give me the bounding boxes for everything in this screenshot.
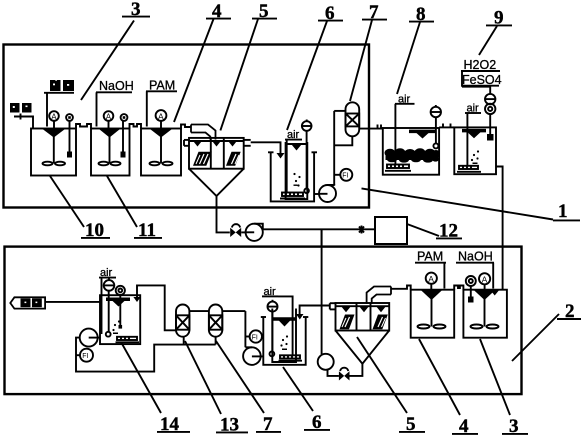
- media biofilm blobs tank 8: [385, 148, 441, 162]
- svg-text:A: A: [106, 113, 112, 122]
- callout 3b: [480, 339, 528, 437]
- label air tank 8: [395, 94, 415, 106]
- pipe sludge header to tank 12: [263, 229, 375, 246]
- tank 11 NaOH mixing tank: [91, 129, 130, 176]
- label PAM (bottom): [415, 250, 446, 289]
- pipe tank 14 outlet: [45, 301, 100, 303]
- pipe riser to columns bottom: [222, 311, 245, 347]
- callout 4b: [419, 339, 478, 437]
- column 7 filter (bottom): [209, 305, 222, 337]
- label air tank 6 bottom: [262, 286, 278, 298]
- pipe sludge clarifier top underflow: [217, 196, 230, 232]
- label H2O2: [461, 58, 500, 72]
- bubbles tank 6 top: [293, 173, 300, 187]
- pipe riser pump to column 7: [334, 111, 345, 185]
- pump P2 sludge: [241, 224, 263, 241]
- pipe air down tank 6: [286, 140, 288, 192]
- plate pack right bottom clarifier: [373, 315, 388, 330]
- pipe clarifier bottom outlet bracket: [330, 303, 336, 309]
- label air tank 14: [99, 267, 116, 279]
- pipe column13 outlet to tank 14: [133, 285, 176, 330]
- svg-text:6: 6: [325, 3, 335, 24]
- svg-text:5: 5: [406, 414, 416, 435]
- svg-text:PAM: PAM: [417, 250, 443, 264]
- pipe tank 8 to tank 9: [439, 124, 454, 128]
- svg-text:A: A: [158, 111, 164, 121]
- svg-text:7: 7: [369, 2, 379, 23]
- pipe clarifier inlet stub left: [184, 140, 189, 146]
- callout 1: [362, 188, 581, 222]
- label PAM (top): [146, 79, 177, 127]
- tank PAM mixing (top): [141, 129, 181, 176]
- funnel hopper clarifier bottom: [336, 331, 390, 364]
- tank 14 aeration: [100, 295, 140, 344]
- funnel hopper clarifier top: [189, 169, 244, 196]
- svg-text:4: 4: [459, 416, 469, 437]
- callout 9: [479, 8, 512, 56]
- tank 6 aeration (top) outer: [268, 152, 317, 201]
- unit 1 enclosure box: [4, 45, 370, 208]
- motor M3 on PAM tank: [156, 110, 167, 129]
- pipe dosing line to tank 9: [462, 71, 490, 94]
- probe dosing into tank 9: [487, 114, 494, 140]
- label FeSO4: [462, 73, 502, 87]
- svg-text:A: A: [482, 275, 488, 285]
- diffuser tank 6 top: [280, 193, 305, 199]
- valve V2 sludge bottom: [339, 368, 350, 381]
- launder feed trough clarifier 5 (bottom): [367, 287, 391, 305]
- svg-text:H2O2: H2O2: [464, 58, 497, 72]
- svg-text:A: A: [428, 274, 434, 284]
- node discharge arrow 出水: [10, 297, 45, 308]
- motor M4 tank 3 bottom: [479, 273, 490, 290]
- sensor DO tank 6 bottom: [268, 300, 278, 357]
- column 7 filter (top): [334, 102, 359, 145]
- callout 11: [107, 176, 162, 241]
- pump P1 after tank 6: [314, 185, 336, 202]
- clarifier 4/5 inclined plate settler (top): [189, 138, 244, 169]
- tank 12 sludge box: [375, 217, 407, 244]
- svg-text:5: 5: [259, 1, 269, 22]
- node feed label 废水 (vector glyphs): [10, 102, 32, 114]
- svg-text:3: 3: [509, 416, 519, 437]
- pump P4 tank 6 bottom: [243, 347, 263, 365]
- callout 12: [407, 221, 462, 242]
- svg-text:7: 7: [263, 414, 273, 435]
- callout 5b: [357, 337, 425, 435]
- callout 6b: [283, 367, 330, 433]
- svg-text:12: 12: [439, 221, 458, 242]
- pipe air down tank 9: [466, 113, 468, 166]
- node inlet marker tank 3 bottom: [491, 290, 500, 295]
- callout 3: [81, 0, 150, 100]
- plate pack right (hatched): [226, 152, 241, 166]
- wire feed inlet line: [14, 114, 33, 129]
- callout 7: [350, 2, 387, 101]
- sensor pH probe tank 11: [121, 114, 128, 157]
- tank 4 PAM mixing (bottom): [411, 290, 455, 338]
- pipe PAM tank to launder: [181, 125, 191, 129]
- tank 6 aeration (bottom) outer: [261, 317, 309, 365]
- diffuser tank 6 bottom: [279, 355, 303, 360]
- callout 8: [397, 4, 434, 94]
- pipe tank 9 outlet down to unit 2: [496, 167, 503, 290]
- tank 10 acid mixing tank: [31, 129, 76, 176]
- sensor pH probe tank 10: [66, 114, 73, 157]
- valve union fitting: [359, 226, 364, 234]
- sensor DO meter tank 6 top: [302, 120, 312, 194]
- svg-text:11: 11: [138, 220, 156, 241]
- pipe effluent to tank 6 bottom: [296, 306, 330, 320]
- bubbles tank 9: [471, 150, 479, 164]
- callout 10: [50, 176, 110, 241]
- svg-text:3: 3: [131, 0, 141, 20]
- pipe air tank 6 bottom: [278, 296, 293, 355]
- diffuser tank 14: [116, 337, 140, 343]
- meter FI tank 6 bottom: [245, 330, 262, 342]
- callout 7b: [216, 341, 281, 435]
- column 13 filter: [176, 305, 189, 337]
- tank 3 NaOH mixing (bottom): [463, 290, 507, 338]
- pipe air tank 14: [101, 278, 103, 334]
- bubbles tank 14: [112, 320, 120, 334]
- tank 6 inner column: [286, 142, 308, 199]
- plate pack left (hatched): [193, 152, 212, 166]
- label air tank 6 top: [285, 129, 302, 141]
- callout 5: [220, 1, 277, 130]
- tank 8 biological reactor: [383, 128, 439, 175]
- pipe column 7 outlet to tank 8: [359, 125, 383, 129]
- svg-text:2: 2: [565, 301, 575, 322]
- diffuser tank 8: [385, 165, 411, 171]
- launder feed trough clarifier 4: [191, 125, 216, 140]
- tank 9 fenton reactor: [454, 127, 496, 174]
- unit 2 enclosure box: [5, 247, 522, 395]
- label air tank 9: [465, 103, 481, 115]
- svg-text:1: 1: [558, 201, 568, 222]
- pipe columns drain header: [76, 337, 216, 372]
- label NaOH (bottom): [456, 250, 494, 289]
- pipe air down tank 8: [394, 104, 396, 164]
- svg-text:4: 4: [212, 1, 222, 22]
- pipe clarifier outlet to tank 6: [244, 140, 285, 159]
- svg-text:8: 8: [416, 4, 426, 25]
- sensor DO tank 14: [104, 278, 115, 336]
- motor M1 on tank 10: [49, 111, 59, 129]
- callout 2: [512, 301, 581, 361]
- bubbles tank 6 bottom: [280, 335, 288, 350]
- valve V1 sludge: [230, 224, 241, 237]
- pipe tank3-tank4 overflow (bottom): [454, 286, 463, 290]
- pump dosing metering 2: [485, 104, 495, 114]
- callout 6: [287, 3, 343, 130]
- pipe sludge bottom clarifier: [350, 364, 363, 376]
- pump dosing metering 1: [485, 94, 495, 104]
- pipe tank4 to launder (bottom): [391, 286, 411, 290]
- diffuser tank 9: [457, 166, 481, 172]
- svg-text:FI: FI: [82, 353, 88, 360]
- svg-text:9: 9: [494, 8, 504, 29]
- sensor pH tank 14: [116, 286, 125, 329]
- plate pack left bottom clarifier: [340, 315, 355, 330]
- svg-text:NaOH: NaOH: [458, 250, 493, 264]
- svg-text:FI: FI: [252, 334, 258, 341]
- motor M2 on tank 11: [104, 111, 114, 129]
- sensor DO meter tank 8: [431, 105, 441, 148]
- pump P3 sludge bottom: [318, 229, 339, 376]
- motor M5 tank 4 bottom: [426, 273, 437, 291]
- svg-text:NaOH: NaOH: [99, 79, 134, 93]
- pipe column13-column7 top link: [189, 310, 209, 312]
- svg-text:13: 13: [220, 415, 239, 436]
- pump P5 tank 14: [80, 329, 100, 347]
- callout 13: [185, 341, 248, 436]
- label NaOH (top): [96, 79, 134, 127]
- svg-text:14: 14: [160, 414, 180, 435]
- tank 6 bottom inner column: [272, 309, 296, 363]
- callout 14: [121, 342, 190, 435]
- pipe tank10-tank11 overflow: [76, 124, 91, 129]
- svg-text:FI: FI: [342, 173, 348, 180]
- svg-text:A: A: [51, 113, 57, 122]
- wire acid dosing line: [44, 93, 74, 127]
- svg-text:6: 6: [312, 412, 322, 433]
- label acid 盐酸 (vector glyphs): [50, 79, 74, 93]
- clarifier 5 inclined plate settler (bottom): [336, 303, 390, 331]
- meter FI tank 14: [76, 349, 93, 362]
- pipe tank11-PAM overflow: [130, 124, 142, 129]
- svg-text:10: 10: [85, 220, 104, 241]
- callout 4: [174, 1, 231, 122]
- meter FI (top): [334, 169, 352, 181]
- sensor pH tank 3 bottom: [466, 276, 476, 303]
